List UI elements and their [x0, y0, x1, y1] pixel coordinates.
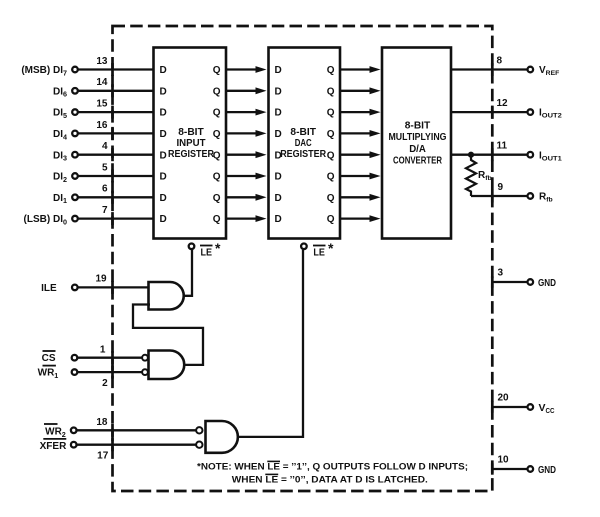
input register LE terminal: [189, 244, 195, 250]
svg-text:1: 1: [100, 344, 106, 355]
input terminal DI6: [53, 86, 78, 98]
wire DAC-register Q5 to converter (arrow): [340, 109, 381, 116]
svg-text:D: D: [275, 193, 282, 204]
wire DAC-register Q4 to converter (arrow): [340, 130, 381, 137]
svg-text:*: *: [328, 240, 334, 256]
svg-text:D: D: [275, 214, 282, 225]
svg-text:Q: Q: [213, 172, 221, 183]
svg-text:REGISTER: REGISTER: [280, 149, 326, 160]
svg-text:D: D: [275, 172, 282, 183]
wire CS to gate G2: [78, 357, 143, 359]
wire DI7 to input register: [78, 68, 154, 70]
svg-text:D: D: [160, 214, 167, 225]
8-bit input register block: [154, 48, 227, 239]
svg-text:D: D: [275, 86, 282, 97]
svg-text:ILE: ILE: [41, 283, 57, 294]
label LE* (input register): [200, 240, 221, 259]
8-bit DAC register block: [269, 48, 341, 239]
wire DI5 to input register: [78, 111, 154, 113]
svg-text:D: D: [160, 150, 167, 161]
svg-text:5: 5: [102, 162, 108, 173]
svg-text:14: 14: [96, 77, 108, 88]
svg-text:Q: Q: [213, 129, 221, 140]
wire DAC-register Q3 to converter (arrow): [340, 151, 381, 158]
svg-text:*: *: [215, 240, 221, 256]
svg-text:GND: GND: [538, 277, 556, 289]
svg-text:D/A: D/A: [409, 144, 426, 155]
power terminal GND: [528, 277, 557, 289]
resistor Rfb: [466, 155, 476, 196]
svg-text:Q: Q: [327, 150, 335, 161]
note text line 1: [197, 461, 468, 472]
input terminal DI7: [21, 65, 77, 77]
power terminal GND: [528, 464, 557, 476]
wire DAC-register Q0 to converter (arrow): [340, 215, 381, 222]
wire DI1 to input register: [78, 196, 154, 198]
input terminal WR1: [38, 366, 78, 380]
svg-text:11: 11: [497, 141, 508, 152]
DAC register LE terminal: [301, 244, 307, 250]
terminal IOUT2: [528, 108, 563, 120]
svg-text:15: 15: [96, 99, 108, 110]
wire DAC-register Q1 to converter (arrow): [340, 194, 381, 201]
svg-text:LE: LE: [313, 247, 325, 259]
svg-text:Q: Q: [327, 172, 335, 183]
svg-text:9: 9: [498, 182, 504, 193]
svg-text:6: 6: [102, 184, 108, 195]
svg-text:Q: Q: [213, 214, 221, 225]
wire DAC-register Q2 to converter (arrow): [340, 173, 381, 180]
svg-text:D: D: [275, 65, 282, 76]
input terminal XFER: [40, 439, 77, 452]
svg-text:GND: GND: [538, 464, 556, 476]
wire Q6 input-register to DAC-register (arrow): [226, 87, 267, 94]
wire DI0 to input register: [78, 217, 154, 219]
wire XFER to gate G3: [77, 444, 196, 446]
svg-text:Q: Q: [213, 108, 221, 119]
svg-text:D: D: [160, 193, 167, 204]
wire GND (pin 3): [492, 281, 527, 283]
wire Rfb output (pin 9): [471, 195, 528, 197]
svg-text:12: 12: [497, 98, 509, 109]
svg-text:8-BIT: 8-BIT: [405, 121, 431, 132]
svg-text:REGISTER: REGISTER: [168, 149, 214, 160]
svg-text:Q: Q: [327, 86, 335, 97]
svg-text:D: D: [160, 108, 167, 119]
svg-text:D: D: [160, 65, 167, 76]
wire DAC-register Q6 to converter (arrow): [340, 87, 381, 94]
svg-text:Q: Q: [327, 129, 335, 140]
wire DAC-register Q7 to converter (arrow): [340, 66, 381, 73]
wire VREF output: [451, 68, 528, 70]
svg-text:(LSB) DI0: (LSB) DI0: [24, 214, 67, 226]
junction node on IOUT1 wire: [468, 152, 474, 158]
terminal VREF: [528, 65, 560, 77]
wire IOUT2 output: [451, 111, 528, 113]
wire Q5 input-register to DAC-register (arrow): [226, 109, 267, 116]
svg-text:18: 18: [96, 417, 108, 428]
border tick marks at wire crossings: [113, 63, 493, 475]
svg-text:10: 10: [498, 455, 510, 466]
svg-text:INPUT: INPUT: [177, 138, 206, 149]
svg-text:D: D: [160, 86, 167, 97]
chip boundary (dashed): [113, 26, 493, 491]
wire Q7 input-register to DAC-register (arrow): [226, 66, 267, 73]
svg-text:MULTIPLYING: MULTIPLYING: [389, 132, 447, 143]
svg-text:20: 20: [498, 393, 510, 404]
wire DI2 to input register: [78, 175, 154, 177]
AND gate G3 (WR2, XFER) with inverting inputs: [196, 421, 238, 453]
label LE* (DAC register): [313, 240, 334, 259]
input terminal CS: [42, 351, 78, 364]
svg-text:16: 16: [96, 120, 108, 131]
wire G1 output to input-register LE: [184, 250, 192, 296]
wire VCC (pin 20): [492, 406, 527, 408]
svg-text:8: 8: [497, 55, 503, 66]
svg-text:3: 3: [498, 268, 504, 279]
terminal Rfb: [528, 192, 553, 204]
wire G3 output to DAC-register LE: [238, 250, 303, 437]
svg-text:*NOTE: WHEN LE = ’’1’’, Q OUTP: *NOTE: WHEN LE = ’’1’’, Q OUTPUTS FOLLOW…: [197, 462, 468, 473]
AND gate G1 (ILE): [149, 282, 184, 310]
input terminal DI0: [24, 214, 78, 226]
wire IOUT1 output: [451, 154, 528, 156]
wire GND (pin 10): [492, 468, 527, 470]
input terminal DI4: [53, 129, 78, 141]
svg-text:13: 13: [96, 56, 108, 67]
svg-text:XFER: XFER: [40, 441, 67, 452]
svg-text:LE: LE: [201, 247, 213, 259]
svg-text:DAC: DAC: [295, 138, 312, 149]
8-bit multiplying D/A converter block: [382, 48, 451, 239]
power terminal VCC: [528, 402, 555, 415]
wire DI4 to input register: [78, 132, 154, 134]
input terminal DI3: [53, 150, 78, 162]
svg-text:D: D: [275, 129, 282, 140]
wire DI6 to input register: [78, 90, 154, 92]
svg-text:Q: Q: [327, 65, 335, 76]
wire Q3 input-register to DAC-register (arrow): [226, 151, 267, 158]
svg-text:CONVERTER: CONVERTER: [393, 155, 442, 166]
svg-text:8-BIT: 8-BIT: [178, 127, 204, 138]
svg-text:Q: Q: [327, 193, 335, 204]
svg-text:7: 7: [102, 205, 108, 216]
wire ILE to AND gate G1: [78, 286, 150, 288]
wire WR1 to gate G2: [78, 371, 143, 373]
svg-text:2: 2: [102, 378, 108, 389]
wire Q1 input-register to DAC-register (arrow): [226, 194, 267, 201]
input terminal WR2: [44, 424, 76, 439]
input terminal DI1: [53, 193, 78, 205]
svg-text:WHEN LE = ’’0’’, DATA AT D IS: WHEN LE = ’’0’’, DATA AT D IS LATCHED.: [232, 475, 428, 486]
svg-text:D: D: [160, 172, 167, 183]
AND gate G2 (CS, WR1) with inverting inputs: [142, 351, 184, 380]
svg-text:CS: CS: [42, 353, 56, 364]
svg-text:Q: Q: [213, 86, 221, 97]
svg-text:(MSB) DI7: (MSB) DI7: [21, 65, 67, 77]
wire Q4 input-register to DAC-register (arrow): [226, 130, 267, 137]
svg-text:Q: Q: [213, 193, 221, 204]
note text line 2: [232, 474, 428, 485]
input terminal DI5: [53, 108, 78, 120]
input terminal ILE: [41, 283, 77, 294]
svg-text:Q: Q: [327, 214, 335, 225]
wire WR2 to gate G3: [77, 429, 196, 431]
svg-text:4: 4: [102, 141, 108, 152]
wire Q0 input-register to DAC-register (arrow): [226, 215, 267, 222]
svg-text:17: 17: [97, 450, 109, 461]
terminal IOUT1: [528, 150, 563, 162]
svg-text:D: D: [275, 108, 282, 119]
wire G2 output feedback to G1 input: [133, 305, 203, 365]
svg-text:8-BIT: 8-BIT: [290, 127, 316, 138]
svg-text:Q: Q: [213, 65, 221, 76]
svg-text:Q: Q: [327, 108, 335, 119]
svg-text:D: D: [160, 129, 167, 140]
input terminal DI2: [53, 172, 78, 184]
svg-text:19: 19: [95, 274, 107, 285]
wire DI3 to input register: [78, 154, 154, 156]
wire Q2 input-register to DAC-register (arrow): [226, 173, 267, 180]
